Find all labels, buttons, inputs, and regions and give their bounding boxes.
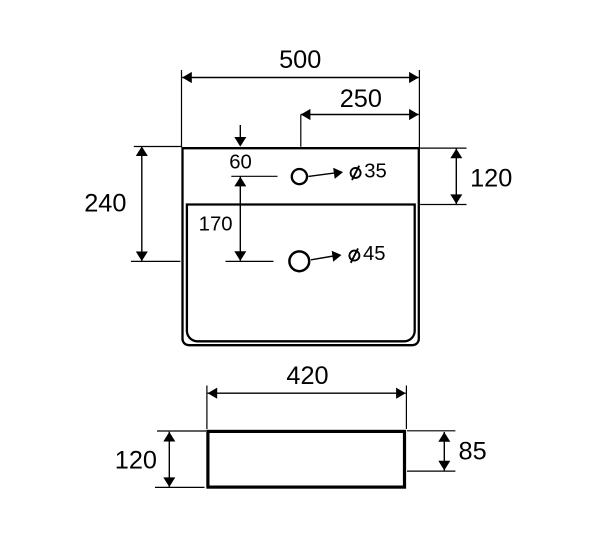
svg-text:120: 120 bbox=[470, 165, 512, 193]
faucet hole circle ø35 bbox=[292, 169, 307, 184]
drain hole circle ø45 bbox=[289, 251, 309, 271]
dimension line 420 bbox=[208, 388, 406, 399]
240 dim top tick bbox=[134, 146, 182, 148]
label ø45 bbox=[349, 243, 385, 265]
dimension text 500 bbox=[279, 46, 321, 74]
svg-text:420: 420 bbox=[286, 362, 328, 390]
leader line ø45 bbox=[311, 251, 342, 262]
dimension line 120 (plan) bbox=[450, 148, 462, 204]
side view body rectangle bbox=[208, 431, 405, 487]
120 side dim top extension bbox=[157, 430, 206, 432]
240 dim bottom tick bbox=[131, 260, 180, 262]
dimension line 250 bbox=[301, 109, 419, 120]
svg-text:500: 500 bbox=[279, 46, 321, 74]
dimension text 60 bbox=[229, 152, 252, 174]
dimension line 170 (faucet line to drain line) bbox=[234, 176, 246, 261]
svg-text:45: 45 bbox=[363, 243, 386, 265]
label ø35 bbox=[351, 160, 387, 182]
drain centerline tick bbox=[226, 260, 274, 262]
120 plan dim bottom extension bbox=[420, 204, 466, 206]
svg-text:85: 85 bbox=[459, 438, 487, 466]
dimension line 500 bbox=[182, 72, 419, 83]
85 dim bottom extension bbox=[407, 470, 455, 472]
extension line right (500 dim) bbox=[418, 70, 420, 147]
extension line left (500 dim) bbox=[181, 70, 183, 147]
dimension text 420 bbox=[286, 362, 328, 390]
dimension line 85 bbox=[438, 432, 450, 471]
svg-text:240: 240 bbox=[84, 190, 126, 218]
extension line mid (250 dim, at faucet centerline) bbox=[300, 115, 302, 147]
420 dim right extension bbox=[405, 386, 407, 430]
120 plan dim top extension bbox=[420, 147, 466, 149]
dimension line 240 bbox=[136, 146, 148, 261]
120 side dim bottom extension bbox=[155, 486, 205, 488]
dimension text 120 (side) bbox=[115, 447, 157, 475]
svg-text:60: 60 bbox=[229, 152, 252, 174]
basin outer outline (plan view) bbox=[183, 148, 419, 345]
420 dim left extension bbox=[206, 386, 208, 430]
dimension line 120 (side) bbox=[163, 432, 175, 488]
dimension text 85 bbox=[459, 438, 487, 466]
svg-text:250: 250 bbox=[340, 85, 382, 113]
leader line ø35 bbox=[308, 168, 343, 179]
dimension text 250 bbox=[340, 85, 382, 113]
faucet centerline tick bbox=[231, 175, 277, 177]
60 dim upper arrow (points down to rim top edge) bbox=[234, 125, 246, 147]
basin inner bowl outline (plan view) bbox=[187, 205, 415, 342]
dimension text 120 (plan) bbox=[470, 165, 512, 193]
dimension text 240 bbox=[84, 190, 126, 218]
svg-text:120: 120 bbox=[115, 447, 157, 475]
dimension text 170 bbox=[199, 214, 233, 236]
svg-text:35: 35 bbox=[364, 160, 387, 182]
svg-text:170: 170 bbox=[199, 214, 233, 236]
85 dim top extension bbox=[407, 430, 455, 432]
